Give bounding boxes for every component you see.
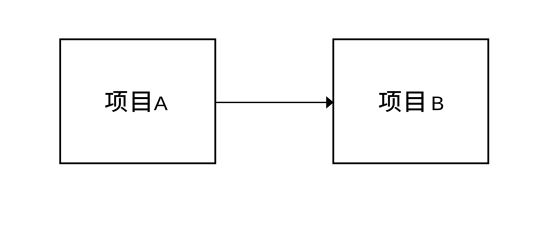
label 项目B	[379, 91, 443, 112]
box 项目B (right rectangle)	[333, 39, 488, 163]
wire (arrow shaft from 项目A to 项目B)	[216, 101, 327, 103]
box 项目A (left rectangle)	[60, 39, 215, 163]
label 项目A	[105, 91, 167, 112]
arrowhead at 项目B	[327, 97, 333, 108]
